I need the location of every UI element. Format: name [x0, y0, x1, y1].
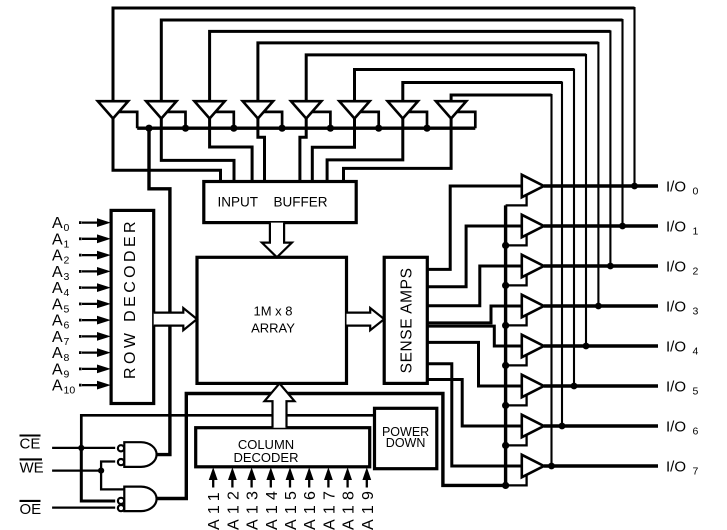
svg-text:6: 6 — [693, 425, 699, 437]
address input A11 — [206, 467, 223, 530]
wire CE down to gate G2 — [81, 448, 115, 501]
svg-text:A: A — [52, 231, 63, 248]
wire I/O 1 line — [544, 224, 658, 227]
wire sense amp output 0 to output buffer B1 — [427, 186, 522, 269]
address input A2 — [52, 248, 111, 267]
svg-text:3: 3 — [693, 305, 699, 317]
junction on write-enable bus — [423, 125, 430, 132]
wire feedback loop I/O 2 to input driver D3 — [210, 30, 614, 269]
input driver D8 (tri-state buffer, points down) — [436, 101, 466, 118]
svg-text:1M x 8: 1M x 8 — [253, 304, 292, 319]
svg-text:2: 2 — [693, 265, 699, 277]
wire enable stub of output buffer B2 — [506, 235, 527, 246]
wire feedback loop I/O 5 to input driver D6 — [355, 69, 578, 390]
svg-text:A16: A16 — [302, 486, 319, 530]
wire enable stub of output buffer B3 — [506, 275, 527, 286]
wire read-enable: gate G2 output to output-enable bus — [157, 394, 506, 499]
chip enable input CE (active low) — [20, 436, 116, 453]
wire driver D3 output to input buffer — [210, 117, 253, 185]
write enable input WE (active low) — [20, 459, 105, 476]
address input A19 — [360, 467, 377, 530]
wire sense amp output 2 to output buffer B3 — [427, 266, 522, 306]
pin label I/O 0 — [666, 178, 699, 197]
address input A3 — [52, 264, 111, 283]
address input A4 — [52, 280, 111, 299]
input driver D5 (tri-state buffer, points down) — [291, 101, 321, 118]
junction on output-enable bus — [502, 362, 509, 369]
junction on output-enable bus — [502, 442, 509, 449]
wire chip-enable to power down — [81, 415, 374, 448]
output buffer B3 (tri-state, points right) — [522, 255, 544, 277]
pin label I/O 6 — [666, 418, 699, 437]
wire enable elbow of driver D3 — [214, 112, 234, 128]
address input A12 — [225, 467, 242, 530]
svg-text:A: A — [52, 280, 63, 297]
arrow column decoder to array — [265, 383, 295, 427]
wire I/O 2 line — [544, 264, 658, 267]
junction on output-enable bus — [502, 482, 509, 489]
wire driver D6 output to input buffer — [312, 117, 354, 185]
svg-text:7: 7 — [64, 336, 70, 348]
svg-text:A14: A14 — [264, 486, 281, 530]
wire enable stub of output buffer B6 — [506, 395, 527, 406]
svg-text:A: A — [52, 215, 63, 232]
svg-text:WE: WE — [20, 460, 44, 477]
wire I/O 3 line — [544, 304, 658, 307]
junction on write-enable bus — [145, 125, 152, 132]
svg-text:4: 4 — [693, 345, 699, 357]
wire driver D7 output to input buffer — [327, 117, 403, 185]
svg-text:10: 10 — [64, 385, 76, 397]
svg-text:DOWN: DOWN — [386, 436, 426, 450]
input driver D4 (tri-state buffer, points down) — [243, 101, 273, 118]
wire enable elbow of driver D5 — [310, 112, 330, 128]
svg-text:0: 0 — [64, 222, 70, 234]
svg-text:9: 9 — [64, 369, 70, 381]
svg-text:2: 2 — [64, 255, 70, 267]
input driver D7 (tri-state buffer, points down) — [388, 101, 418, 118]
svg-text:A12: A12 — [225, 486, 242, 530]
wire write-enable bus — [137, 126, 475, 129]
wire enable stub of output buffer B8 — [506, 475, 527, 486]
gate G1 write control (AND with inverting inputs) — [118, 442, 157, 467]
svg-text:I/O: I/O — [666, 338, 686, 355]
column decoder block — [196, 428, 370, 467]
pin label I/O 4 — [666, 338, 699, 357]
svg-text:I/O: I/O — [666, 218, 686, 235]
input driver D1 (tri-state buffer, points down) — [98, 101, 128, 118]
wire sense amp output 4 to output buffer B5 — [427, 326, 522, 346]
address input A0 — [52, 215, 111, 234]
input buffer block — [204, 182, 356, 223]
output buffer B2 (tri-state, points right) — [522, 215, 544, 237]
wire feedback loop I/O 4 to input driver D5 — [306, 54, 589, 350]
svg-text:INPUT: INPUT — [218, 195, 259, 210]
output buffer B1 (tri-state, points right) — [522, 175, 544, 197]
svg-text:1: 1 — [64, 238, 70, 250]
address input A13 — [245, 467, 262, 530]
arrow row decoder to array — [154, 308, 197, 330]
wire enable elbow of driver D6 — [359, 112, 379, 128]
svg-text:A: A — [52, 329, 63, 346]
svg-text:DECODER: DECODER — [233, 450, 298, 465]
address input A16 — [302, 467, 319, 530]
svg-text:A: A — [52, 345, 63, 362]
address input A7 — [52, 329, 111, 348]
svg-text:BUFFER: BUFFER — [274, 195, 328, 210]
row decoder block — [111, 210, 154, 403]
wire driver D2 output to input buffer — [161, 117, 234, 185]
gate G2 read control (AND with inverting inputs) — [118, 487, 157, 512]
svg-text:6: 6 — [64, 320, 70, 332]
svg-text:ROW DECODER: ROW DECODER — [122, 218, 139, 379]
wire sense amp output 6 to output buffer B7 — [427, 380, 522, 427]
wire enable stub of output buffer B4 — [506, 315, 527, 326]
junction on write-enable bus — [182, 125, 189, 132]
address input A8 — [52, 345, 111, 364]
svg-text:4: 4 — [64, 287, 70, 299]
address input A1 — [52, 231, 111, 250]
junction on write-enable bus — [230, 125, 237, 132]
svg-text:3: 3 — [64, 271, 70, 283]
svg-text:5: 5 — [64, 304, 70, 316]
wire sense amp output 3 to output buffer B4 — [427, 306, 522, 323]
tick marks on address input tails — [79, 221, 82, 386]
svg-text:A: A — [52, 362, 63, 379]
svg-text:7: 7 — [693, 465, 699, 477]
wire I/O 5 line — [544, 384, 658, 387]
power down block — [375, 408, 437, 468]
wire enable elbow of driver D2 — [165, 112, 185, 128]
svg-text:A: A — [52, 378, 63, 395]
junction on output-enable bus — [502, 242, 509, 249]
wire enable elbow of driver D4 — [262, 112, 282, 128]
svg-text:I/O: I/O — [666, 418, 686, 435]
junction on write-enable bus — [279, 125, 286, 132]
output buffer B4 (tri-state, points right) — [522, 295, 544, 317]
wire enable elbow of driver D8 — [455, 112, 475, 128]
output buffer B5 (tri-state, points right) — [522, 335, 544, 357]
junction on output-enable bus — [502, 402, 509, 409]
wire I/O 0 line — [544, 184, 658, 187]
arrow input buffer to array — [262, 223, 292, 258]
address input A9 — [52, 362, 111, 381]
wire output-enable bus — [504, 205, 507, 485]
address input A10 — [52, 378, 111, 397]
wire enable elbow of driver D7 — [407, 112, 427, 128]
pin label I/O 2 — [666, 258, 699, 277]
pin label I/O 7 — [666, 458, 699, 477]
address input A6 — [52, 313, 111, 332]
wire I/O 4 line — [544, 344, 658, 347]
svg-text:A: A — [52, 297, 63, 314]
input driver D6 (tri-state buffer, points down) — [339, 101, 369, 118]
arrow array to sense amps — [347, 308, 385, 330]
wire enable stub of output buffer B1 — [506, 195, 527, 206]
junction on output-enable bus — [502, 322, 509, 329]
svg-text:A15: A15 — [283, 486, 300, 530]
input driver D2 (tri-state buffer, points down) — [146, 101, 176, 118]
wire WE to gate G1 and G2 — [101, 462, 125, 490]
output buffer B6 (tri-state, points right) — [522, 375, 544, 397]
wire enable elbow of driver D1 — [117, 112, 137, 128]
svg-text:0: 0 — [693, 185, 699, 197]
wire enable stub of output buffer B5 — [506, 355, 527, 366]
sense amps block — [384, 257, 427, 383]
output buffer B8 (tri-state, points right) — [522, 455, 544, 477]
wire driver D5 output to input buffer — [300, 117, 306, 185]
wire sense amp output 5 to output buffer B6 — [427, 342, 522, 386]
svg-text:I/O: I/O — [666, 258, 686, 275]
svg-text:SENSE AMPS: SENSE AMPS — [398, 267, 415, 373]
svg-text:1: 1 — [693, 225, 699, 237]
wire driver D1 output to input buffer — [113, 117, 221, 185]
pin label I/O 1 — [666, 218, 699, 237]
address input A17 — [321, 467, 338, 530]
wire feedback loop I/O 6 to input driver D7 — [403, 82, 566, 430]
wire feedback loop I/O 3 to input driver D4 — [258, 42, 602, 310]
wire I/O 6 line — [544, 424, 658, 427]
address input A18 — [341, 467, 358, 530]
svg-text:I/O: I/O — [666, 378, 686, 395]
wire I/O 7 line — [544, 464, 658, 467]
address input A15 — [283, 467, 300, 530]
wire driver D8 output to input buffer — [344, 117, 452, 185]
svg-text:A19: A19 — [360, 486, 377, 530]
wire sense amp output 1 to output buffer B2 — [427, 226, 522, 287]
svg-text:A11: A11 — [206, 487, 223, 530]
junction on write-enable bus — [327, 125, 334, 132]
wire feedback loop I/O 7 to input driver D8 — [451, 94, 555, 469]
wire driver D4 output to input buffer — [258, 117, 265, 185]
address input A14 — [264, 467, 281, 530]
wire enable stub of output buffer B7 — [506, 435, 527, 446]
svg-text:A13: A13 — [245, 486, 262, 530]
svg-text:A: A — [52, 313, 63, 330]
memory array block 1M x 8 — [197, 257, 347, 383]
svg-text:5: 5 — [693, 385, 699, 397]
pin label I/O 5 — [666, 378, 699, 397]
svg-text:CE: CE — [20, 436, 41, 453]
pin label I/O 3 — [666, 298, 699, 317]
junction on write-enable bus — [375, 125, 382, 132]
wire write-enable from gate G1 up to bus — [149, 128, 170, 454]
output enable input OE (active low) — [20, 501, 116, 518]
svg-text:ARRAY: ARRAY — [251, 321, 295, 336]
svg-text:A: A — [52, 264, 63, 281]
address input A5 — [52, 297, 111, 316]
wire feedback loop I/O 0 to input driver D1 — [113, 7, 638, 189]
junction on output-enable bus — [502, 282, 509, 289]
wire sense amp output 7 to output buffer B8 — [427, 364, 522, 466]
wire feedback loop I/O 1 to input driver D2 — [161, 19, 626, 229]
svg-text:I/O: I/O — [666, 298, 686, 315]
svg-text:I/O: I/O — [666, 458, 686, 475]
svg-text:8: 8 — [64, 352, 70, 364]
svg-text:A18: A18 — [341, 486, 358, 530]
input driver D3 (tri-state buffer, points down) — [194, 101, 224, 118]
svg-text:A: A — [52, 248, 63, 265]
svg-text:I/O: I/O — [666, 178, 686, 195]
svg-text:A17: A17 — [321, 486, 338, 530]
output buffer B7 (tri-state, points right) — [522, 415, 544, 437]
svg-text:OE: OE — [20, 501, 42, 518]
